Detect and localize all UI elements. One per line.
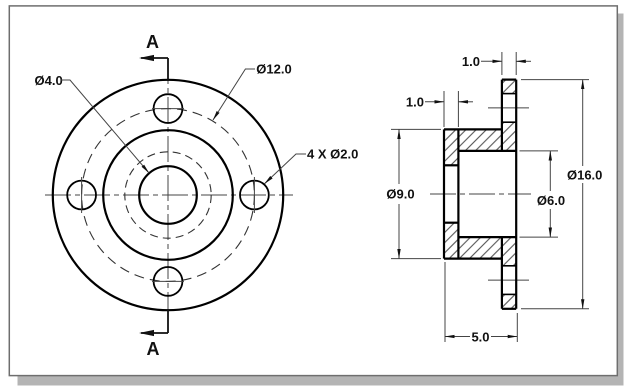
front hole top edge <box>444 164 458 166</box>
plate left edge upper <box>501 80 503 151</box>
center tick right hole <box>253 177 255 213</box>
plate left edge lower <box>501 237 503 309</box>
bolt hole center line bottom <box>488 279 529 281</box>
svg-text:1.0: 1.0 <box>462 54 480 69</box>
hatch upper band <box>444 122 516 165</box>
bolt hole top <box>154 94 183 123</box>
hub top edge <box>444 128 502 130</box>
hidden circle Ø6 (dashed) <box>125 152 211 238</box>
svg-text:5.0: 5.0 <box>471 330 489 345</box>
svg-text:Ø12.0: Ø12.0 <box>256 62 291 77</box>
svg-text:Ø6.0: Ø6.0 <box>537 193 565 208</box>
hub circle Ø9 <box>103 130 233 260</box>
dimension 1.0 plate thickness <box>501 52 503 75</box>
svg-text:Ø4.0: Ø4.0 <box>35 73 63 88</box>
section arrow bottom <box>167 310 169 333</box>
center tick left hole <box>81 177 83 213</box>
horizontal center line <box>45 194 293 196</box>
outer circle Ø16 <box>53 80 283 310</box>
bolt hole bottom <box>154 267 183 296</box>
svg-text:A: A <box>146 32 159 52</box>
plate bottom edge <box>502 308 516 310</box>
hatch plate bottom square <box>502 294 516 308</box>
dimension 1.0 hub wall <box>443 91 445 127</box>
bore bottom edge <box>458 236 516 238</box>
center tick bottom hole <box>152 280 184 282</box>
dimension 5.0 <box>444 262 446 342</box>
hub left edge <box>443 129 445 258</box>
bore top edge <box>458 150 516 152</box>
plate right edge <box>515 80 517 309</box>
svg-text:Ø16.0: Ø16.0 <box>567 168 602 183</box>
dimension Ø6.0 <box>520 150 559 152</box>
bolt hole right <box>240 181 269 210</box>
svg-text:A: A <box>147 339 160 359</box>
hub wall inner edge <box>457 129 459 258</box>
hub bottom edge <box>444 258 502 260</box>
bolt hole edges in plate <box>502 93 516 95</box>
front hole bottom edge <box>444 222 458 224</box>
hatch lower band <box>444 223 516 266</box>
svg-text:1.0: 1.0 <box>406 94 424 109</box>
bore circle Ø4 <box>139 166 197 224</box>
bolt circle Ø12 (dashed) <box>82 109 255 282</box>
center tick top hole <box>152 108 184 110</box>
plate top edge <box>502 78 516 80</box>
svg-text:Ø9.0: Ø9.0 <box>386 187 414 202</box>
svg-text:4 X Ø2.0: 4 X Ø2.0 <box>307 147 358 162</box>
section center line <box>430 193 531 195</box>
vertical center line / cutting plane line <box>167 58 169 333</box>
dimension Ø9.0 <box>391 128 441 130</box>
bolt hole left <box>67 181 96 210</box>
section arrow top <box>167 58 169 80</box>
bolt hole center line top <box>488 107 529 109</box>
dimension Ø16.0 <box>521 79 589 81</box>
hatch plate top square <box>502 80 516 94</box>
